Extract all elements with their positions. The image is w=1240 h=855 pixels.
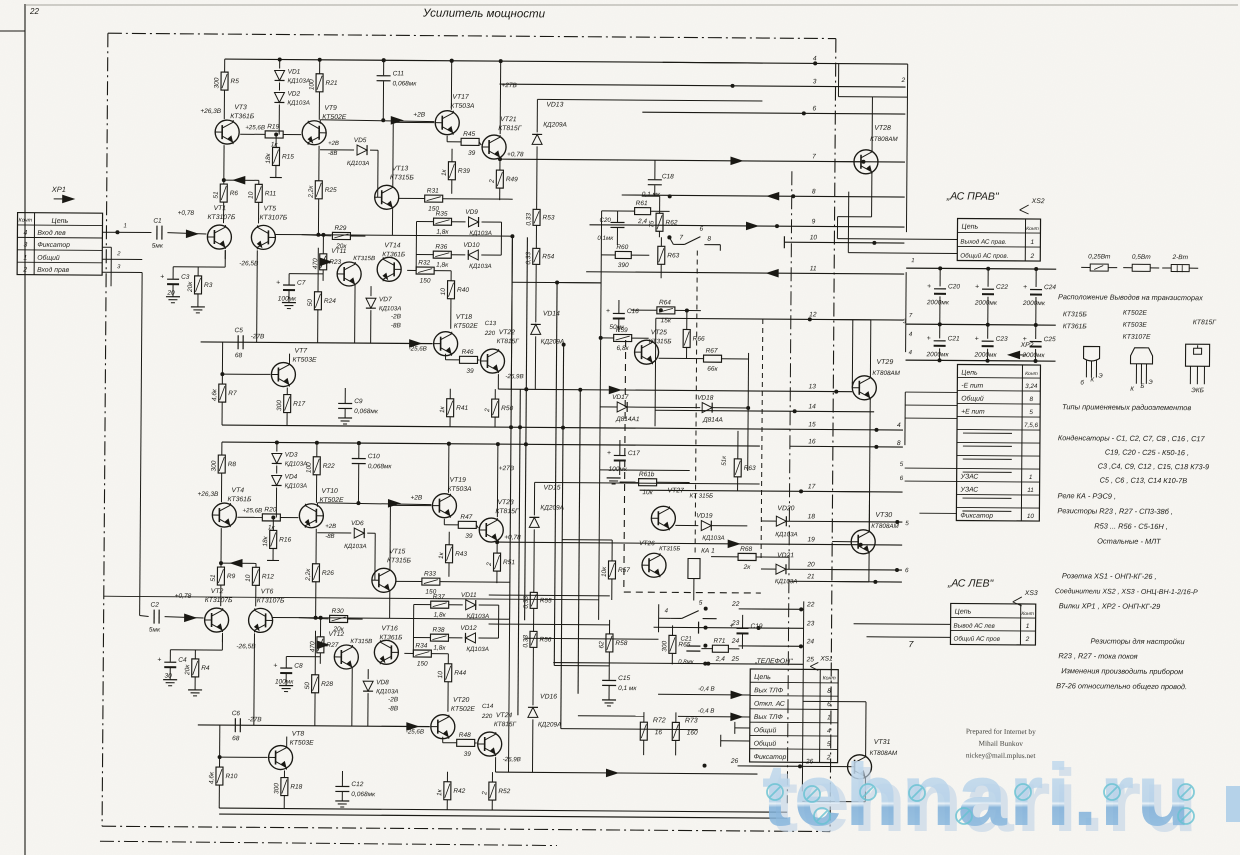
svg-text:R73: R73 bbox=[685, 717, 698, 724]
resistor R71 bbox=[712, 645, 728, 652]
svg-text:51: 51 bbox=[210, 574, 217, 582]
svg-text:КТ361Б: КТ361Б bbox=[1063, 323, 1088, 330]
capacitor C2 bbox=[153, 610, 155, 624]
resistor R72 bbox=[640, 722, 647, 740]
svg-text:VT21: VT21 bbox=[500, 116, 517, 123]
capacitor C16 bbox=[613, 312, 625, 314]
svg-text:КТ808АМ: КТ808АМ bbox=[870, 136, 898, 143]
resistor R59 bbox=[614, 334, 632, 341]
svg-text:КТ808АМ: КТ808АМ bbox=[871, 523, 899, 530]
wire input node bbox=[203, 616, 205, 618]
svg-text:0,1 мк: 0,1 мк bbox=[618, 685, 637, 692]
svg-text:R15: R15 bbox=[282, 154, 294, 161]
svg-text:5: 5 bbox=[1029, 409, 1033, 416]
svg-text:14: 14 bbox=[808, 403, 816, 410]
svg-text:Конт: Конт bbox=[1021, 611, 1034, 617]
svg-text:Изменения производить прибор: Изменения производить прибором bbox=[1061, 666, 1183, 676]
svg-text:R67: R67 bbox=[706, 348, 718, 355]
capacitor bank rails bbox=[906, 268, 1056, 269]
resistor R46 bbox=[459, 356, 477, 363]
svg-text:R58: R58 bbox=[615, 640, 627, 647]
svg-text:„АС ЛЕВ": „АС ЛЕВ" bbox=[947, 577, 995, 589]
svg-text:R30: R30 bbox=[332, 608, 344, 615]
svg-text:В7-26 относительно общего пр: В7-26 относительно общего провод. bbox=[1056, 681, 1187, 691]
svg-text:„АС ПРАВ": „АС ПРАВ" bbox=[946, 190, 1000, 202]
svg-text:Цепь: Цепь bbox=[961, 370, 978, 377]
diode VD20 bbox=[776, 516, 786, 526]
resistor R64 bbox=[657, 307, 675, 314]
wire bbox=[599, 470, 600, 620]
svg-text:25: 25 bbox=[731, 656, 740, 663]
resistor R43 bbox=[446, 545, 453, 563]
svg-text:Цепь: Цепь bbox=[955, 608, 972, 615]
capacitor С4 bbox=[164, 661, 176, 663]
svg-text:КД103А: КД103А bbox=[466, 646, 489, 653]
svg-text:-2В: -2В bbox=[391, 313, 402, 320]
trimmer R23 bbox=[320, 254, 327, 270]
resistor R48 bbox=[457, 739, 475, 746]
resistor R39 bbox=[448, 162, 455, 180]
wire bbox=[223, 145, 225, 184]
svg-text:2000мк: 2000мк bbox=[1022, 352, 1046, 359]
wire horizontal link 4 bbox=[554, 665, 609, 667]
svg-text:-0,4 В: -0,4 В bbox=[698, 686, 715, 693]
svg-text:4: 4 bbox=[813, 55, 817, 62]
wire vertical x905 bbox=[906, 64, 907, 232]
svg-text:С20: С20 bbox=[948, 283, 960, 290]
wire vertical bus C bbox=[525, 237, 528, 620]
schematic dash-dot border bbox=[108, 33, 836, 38]
diode VD17 bbox=[617, 402, 627, 412]
svg-text:Цепь: Цепь bbox=[961, 223, 978, 230]
diode VD9 bbox=[468, 217, 478, 227]
resistor R57 bbox=[608, 561, 615, 579]
resistor R63b bbox=[734, 459, 741, 477]
wire vertical bus A bbox=[510, 236, 513, 619]
svg-text:С19, С20 - С25 - К50-16 ,: С19, С20 - С25 - К50-16 , bbox=[1105, 448, 1189, 458]
svg-text:Резисторы R23 , R27 - СП3-38: Резисторы R23 , R27 - СП3-38б , bbox=[1057, 506, 1173, 516]
svg-text:21: 21 bbox=[806, 573, 815, 580]
svg-text:С3 ,С4, С9, С12 , С15, С18 К: С3 ,С4, С9, С12 , С15, С18 К73-9 bbox=[1098, 462, 1209, 472]
svg-text:XP2: XP2 bbox=[1020, 342, 1034, 349]
svg-text:23: 23 bbox=[731, 620, 740, 627]
svg-text:R31: R31 bbox=[427, 188, 439, 195]
wire +2V to driver bbox=[320, 120, 434, 122]
svg-text:24: 24 bbox=[731, 638, 740, 645]
resistor R10 bbox=[216, 767, 223, 785]
svg-text:С21: С21 bbox=[948, 335, 960, 342]
wire bottom rail bbox=[222, 425, 790, 429]
svg-text:39: 39 bbox=[465, 533, 473, 540]
svg-text:КТ315Б: КТ315Б bbox=[387, 557, 412, 564]
svg-text:300: 300 bbox=[661, 641, 668, 652]
svg-text:VT3: VT3 bbox=[234, 104, 247, 111]
svg-text:VD9: VD9 bbox=[465, 209, 478, 216]
svg-text:R36: R36 bbox=[435, 244, 447, 251]
svg-text:Усилитель мощности: Усилитель мощности bbox=[422, 8, 546, 21]
svg-text:КД103А: КД103А bbox=[288, 78, 311, 85]
svg-text:4: 4 bbox=[827, 728, 831, 735]
svg-text:+: + bbox=[160, 274, 164, 281]
svg-text:КТ315В: КТ315В bbox=[350, 638, 372, 645]
svg-text:Реле КА - РЭС9 ,: Реле КА - РЭС9 , bbox=[1057, 491, 1116, 500]
svg-text:0,068мк: 0,068мк bbox=[393, 80, 418, 87]
wire contact 19 bbox=[759, 544, 902, 545]
svg-text:22: 22 bbox=[29, 7, 39, 16]
svg-text:20к: 20к bbox=[187, 281, 194, 293]
svg-text:КД209А: КД209А bbox=[538, 721, 562, 728]
svg-text:VT4: VT4 bbox=[232, 487, 245, 494]
wire horizontal link 2 bbox=[489, 623, 610, 626]
svg-text:VD19: VD19 bbox=[696, 513, 713, 520]
connector XP1 table bbox=[17, 213, 102, 276]
svg-text:0,33: 0,33 bbox=[525, 213, 532, 226]
svg-text:Конт: Конт bbox=[1026, 226, 1039, 232]
svg-text:Фиксатор: Фиксатор bbox=[37, 242, 70, 249]
svg-text:5мк: 5мк bbox=[149, 627, 161, 634]
capacitor С12 bbox=[335, 785, 349, 787]
resistor R20 bbox=[237, 516, 262, 518]
resistor R65 bbox=[669, 635, 676, 653]
svg-text:R17: R17 bbox=[293, 401, 305, 408]
resistor R6 bbox=[220, 184, 227, 202]
diode VD19 bbox=[701, 521, 711, 531]
resistor R60 bbox=[615, 251, 631, 258]
svg-text:R68: R68 bbox=[740, 546, 752, 553]
svg-text:КД103А: КД103А bbox=[376, 688, 399, 695]
inner dash-dot vertical line bbox=[787, 171, 792, 803]
page frame bbox=[24, 4, 26, 855]
wire +2V to driver bbox=[317, 503, 431, 505]
svg-text:R55: R55 bbox=[540, 597, 552, 604]
wire vertical x805 bbox=[802, 601, 803, 791]
svg-text:11: 11 bbox=[1027, 487, 1034, 494]
svg-text:КТ3107Б: КТ3107Б bbox=[260, 214, 288, 221]
wire mid rail bbox=[198, 725, 430, 727]
svg-text:23: 23 bbox=[806, 620, 815, 627]
svg-text:1: 1 bbox=[1029, 474, 1033, 481]
svg-text:2000мк: 2000мк bbox=[926, 299, 950, 306]
svg-text:R7: R7 bbox=[228, 390, 237, 397]
wire emitters bbox=[272, 616, 299, 618]
svg-text:VT15: VT15 bbox=[389, 548, 406, 555]
svg-text:51: 51 bbox=[213, 191, 220, 199]
svg-text:КТ361Б: КТ361Б bbox=[230, 113, 255, 120]
svg-text:39: 39 bbox=[468, 150, 476, 157]
svg-text:300: 300 bbox=[213, 77, 220, 88]
resistor R3 bbox=[224, 250, 226, 259]
svg-text:R61: R61 bbox=[636, 200, 648, 207]
svg-text:R48: R48 bbox=[459, 732, 471, 739]
svg-text:КД209А: КД209А bbox=[540, 504, 564, 511]
svg-text:6: 6 bbox=[699, 226, 703, 233]
svg-text:R56: R56 bbox=[539, 636, 551, 643]
wire emitters bbox=[274, 233, 301, 235]
svg-text:+25,6В: +25,6В bbox=[245, 124, 265, 131]
svg-text:Вилки XP1 , XP2 - ОНП-КГ-29: Вилки XP1 , XP2 - ОНП-КГ-29 bbox=[1059, 601, 1161, 611]
svg-text:1: 1 bbox=[911, 258, 914, 264]
wire contact 12 bbox=[656, 318, 904, 320]
wire vertical bus D bbox=[554, 283, 557, 666]
svg-text:1: 1 bbox=[1026, 623, 1030, 630]
diode VD8 bbox=[367, 669, 369, 679]
svg-text:КТ808АМ: КТ808АМ bbox=[872, 370, 900, 377]
svg-text:100: 100 bbox=[308, 79, 315, 90]
svg-text:1к: 1к bbox=[438, 551, 445, 559]
svg-text:КТ3107Б: КТ3107Б bbox=[208, 214, 236, 221]
resistor R17 bbox=[284, 395, 291, 413]
svg-text:КД103А: КД103А bbox=[702, 535, 725, 542]
svg-text:2: 2 bbox=[901, 77, 906, 84]
svg-text:R3: R3 bbox=[204, 282, 213, 289]
svg-text:С14: С14 bbox=[482, 703, 494, 710]
wire horizontal link 8 bbox=[561, 729, 698, 730]
capacitor C21 bbox=[686, 645, 700, 647]
svg-text:VD1: VD1 bbox=[288, 69, 301, 76]
wire horizontal link 5 bbox=[512, 281, 601, 284]
dashed wire bbox=[761, 319, 763, 561]
watermark edge sliver bbox=[1226, 786, 1240, 822]
resistor R41 bbox=[447, 399, 454, 417]
svg-text:КТ815Г: КТ815Г bbox=[498, 125, 523, 132]
capacitor С20 bbox=[939, 268, 941, 286]
wire VT31 emitter down bbox=[802, 800, 865, 802]
wire contact 4 bbox=[663, 62, 908, 64]
svg-text:К: К bbox=[1090, 376, 1094, 383]
svg-text:VT18: VT18 bbox=[456, 314, 473, 321]
svg-text:С5: С5 bbox=[235, 327, 244, 334]
svg-text:18к: 18к bbox=[262, 535, 269, 546]
svg-text:КТ315В: КТ315В bbox=[353, 255, 375, 262]
svg-text:VT30: VT30 bbox=[875, 512, 892, 519]
resistor R36 bbox=[433, 251, 451, 258]
svg-text:25: 25 bbox=[806, 656, 815, 663]
svg-text:3: 3 bbox=[813, 78, 817, 85]
svg-text:0,1мк: 0,1мк bbox=[597, 235, 614, 242]
svg-text:4: 4 bbox=[897, 422, 901, 429]
svg-text:2,4: 2,4 bbox=[637, 218, 647, 225]
svg-text:КА 1: КА 1 bbox=[701, 548, 715, 555]
svg-text:КД103А: КД103А bbox=[344, 543, 367, 550]
wire contact 14 bbox=[655, 410, 874, 412]
svg-text:+25,6В: +25,6В bbox=[242, 507, 262, 514]
svg-text:0,33: 0,33 bbox=[525, 252, 532, 265]
resistor R25 bbox=[315, 181, 322, 199]
wire to XS2 bbox=[837, 238, 957, 241]
wire bottom long bbox=[219, 808, 787, 812]
svg-text:С25: С25 bbox=[1044, 336, 1056, 343]
resistor R40 bbox=[447, 281, 454, 299]
svg-text:7: 7 bbox=[812, 153, 816, 160]
svg-text:VD14: VD14 bbox=[543, 310, 560, 317]
svg-text:22: 22 bbox=[806, 601, 815, 608]
svg-text:R4: R4 bbox=[201, 665, 210, 672]
svg-text:VD21: VD21 bbox=[777, 552, 794, 559]
svg-text:Prepared for Internet by: Prepared for Internet by bbox=[966, 727, 1036, 737]
svg-text:R60: R60 bbox=[616, 244, 628, 251]
svg-text:+0,78: +0,78 bbox=[178, 210, 195, 217]
capacitor С25 bbox=[1035, 325, 1037, 339]
svg-text:17: 17 bbox=[808, 483, 816, 490]
svg-text:2000мк: 2000мк bbox=[974, 352, 998, 359]
svg-text:2: 2 bbox=[1025, 636, 1030, 643]
svg-text:160: 160 bbox=[687, 729, 698, 736]
resistor R29 bbox=[301, 235, 331, 236]
svg-text:R53: R53 bbox=[543, 214, 555, 221]
svg-text:R64: R64 bbox=[659, 299, 671, 306]
capacitor С3 bbox=[167, 278, 179, 280]
svg-text:R51: R51 bbox=[503, 559, 515, 566]
svg-text:С15: С15 bbox=[618, 675, 630, 682]
svg-text:150: 150 bbox=[417, 661, 428, 668]
wire vertical bus E bbox=[561, 345, 564, 729]
svg-text:R63: R63 bbox=[667, 252, 679, 259]
svg-text:Фиксатор: Фиксатор bbox=[960, 512, 993, 519]
connector XS2 table bbox=[957, 218, 1040, 261]
resistor R9 bbox=[217, 567, 224, 585]
svg-text:-27В: -27В bbox=[251, 333, 265, 340]
svg-text:1: 1 bbox=[123, 223, 126, 229]
svg-text:КТ503Е: КТ503Е bbox=[290, 740, 315, 747]
svg-text:R21: R21 bbox=[326, 80, 338, 87]
svg-text:26: 26 bbox=[730, 758, 739, 765]
svg-text:Конденсаторы - С1, С2, С7, С8: Конденсаторы - С1, С2, С7, С8 , С16 , С1… bbox=[1058, 433, 1206, 443]
svg-text:+27В: +27В bbox=[501, 82, 517, 89]
svg-text:R35: R35 bbox=[436, 211, 448, 218]
wire contact 25 bbox=[553, 663, 803, 665]
svg-text:R22: R22 bbox=[323, 463, 335, 470]
svg-text:VD18: VD18 bbox=[697, 395, 714, 402]
svg-text:С10: С10 bbox=[368, 453, 380, 460]
svg-text:КД209А: КД209А bbox=[541, 338, 565, 345]
svg-text:1к: 1к bbox=[439, 405, 446, 413]
svg-text:+: + bbox=[927, 283, 931, 290]
svg-text:R59: R59 bbox=[616, 327, 628, 334]
svg-text:+2В: +2В bbox=[325, 524, 336, 530]
junction dots bbox=[510, 234, 514, 238]
wire bbox=[599, 340, 602, 470]
svg-text:С4: С4 bbox=[178, 657, 187, 664]
svg-text:4: 4 bbox=[909, 331, 913, 338]
svg-text:КТ502Е: КТ502Е bbox=[451, 706, 476, 713]
svg-text:VT22: VT22 bbox=[499, 329, 516, 336]
svg-text:5: 5 bbox=[905, 520, 909, 527]
svg-text:Розетка XS1 - ОНП-КГ-26 ,: Розетка XS1 - ОНП-КГ-26 , bbox=[1062, 571, 1157, 581]
svg-text:+: + bbox=[276, 279, 280, 286]
svg-text:VT11: VT11 bbox=[331, 248, 346, 255]
resistor R18 bbox=[281, 778, 288, 796]
resistor R58 bbox=[606, 634, 613, 652]
svg-text:R37: R37 bbox=[433, 594, 445, 601]
svg-text:VT13: VT13 bbox=[392, 165, 409, 172]
wire contact 22 bbox=[739, 608, 804, 610]
svg-text:VT19: VT19 bbox=[450, 477, 467, 484]
resistor R61 bbox=[639, 479, 657, 486]
svg-text:Вых ТЛФ: Вых ТЛФ bbox=[754, 687, 784, 694]
resistor R49 bbox=[496, 170, 503, 188]
wire contact 8 bbox=[622, 195, 905, 197]
svg-text:16: 16 bbox=[655, 729, 663, 736]
svg-text:R20: R20 bbox=[264, 506, 276, 513]
capacitor С24 bbox=[1035, 269, 1037, 287]
svg-text:КТ315Б: КТ315Б bbox=[390, 174, 415, 181]
svg-text:51к: 51к bbox=[721, 455, 728, 466]
svg-text:15: 15 bbox=[808, 421, 816, 428]
svg-text:R6: R6 bbox=[230, 190, 239, 197]
svg-text:VT29: VT29 bbox=[876, 359, 893, 366]
svg-text:1к: 1к bbox=[436, 788, 443, 796]
svg-text:С8: С8 bbox=[294, 663, 303, 670]
svg-text:10: 10 bbox=[248, 191, 255, 199]
svg-text:30: 30 bbox=[165, 673, 173, 680]
svg-text:2,4: 2,4 bbox=[715, 656, 725, 663]
svg-text:+27В: +27В bbox=[499, 465, 515, 472]
svg-text:КТ502Е: КТ502Е bbox=[1123, 310, 1148, 317]
resistor R50 bbox=[492, 399, 499, 417]
wire mid rail bbox=[201, 342, 433, 344]
transistor package KT815 bbox=[1185, 344, 1209, 366]
capacitor С23 bbox=[987, 325, 989, 339]
svg-text:68: 68 bbox=[232, 735, 240, 742]
svg-text:С2: С2 bbox=[151, 602, 160, 609]
svg-text:R41: R41 bbox=[456, 405, 468, 412]
resistor R73 bbox=[672, 722, 679, 740]
resistor R15 bbox=[275, 134, 277, 147]
resistor R55 bbox=[530, 592, 537, 608]
svg-text:+: + bbox=[157, 657, 161, 664]
svg-text:16: 16 bbox=[808, 438, 816, 445]
svg-text:-26,9В: -26,9В bbox=[503, 756, 521, 763]
svg-text:8: 8 bbox=[812, 188, 816, 195]
svg-text:XS1: XS1 bbox=[819, 655, 833, 662]
svg-text:22: 22 bbox=[731, 601, 740, 608]
svg-text:С24: С24 bbox=[1044, 284, 1056, 291]
dashed protection zone left bbox=[624, 340, 626, 592]
capacitor С11 bbox=[377, 75, 391, 77]
svg-text:390: 390 bbox=[618, 262, 629, 269]
wire input node bbox=[205, 233, 207, 235]
svg-text:R16: R16 bbox=[279, 537, 291, 544]
svg-text:Э: Э bbox=[1098, 373, 1103, 380]
svg-text:VD4: VD4 bbox=[285, 474, 298, 481]
svg-text:Общий АС пров: Общий АС пров bbox=[953, 634, 1000, 642]
wire to lower channel input bbox=[102, 271, 142, 273]
svg-text:R25: R25 bbox=[325, 187, 337, 194]
svg-text:7: 7 bbox=[679, 234, 683, 241]
capacitor C1 bbox=[156, 226, 158, 240]
svg-text:2,2к: 2,2к bbox=[308, 185, 315, 199]
svg-text:9: 9 bbox=[812, 218, 816, 225]
capacitor С8 bbox=[280, 667, 292, 669]
wire supply rail bottom bbox=[222, 442, 760, 446]
svg-text:39: 39 bbox=[466, 368, 474, 375]
svg-text:R39: R39 bbox=[458, 168, 470, 175]
svg-text:+0,78: +0,78 bbox=[507, 151, 524, 158]
svg-text:VT16: VT16 bbox=[382, 625, 399, 632]
diode VD3 bbox=[276, 442, 278, 451]
svg-text:XS2: XS2 bbox=[1031, 198, 1045, 205]
resistor R11 bbox=[258, 180, 260, 184]
svg-text:КД103А: КД103А bbox=[379, 305, 402, 312]
svg-text:VD11: VD11 bbox=[461, 592, 477, 599]
wire contact 17 bbox=[640, 490, 903, 492]
svg-text:20: 20 bbox=[166, 290, 175, 297]
svg-text:VT5: VT5 bbox=[264, 205, 277, 212]
svg-text:R11: R11 bbox=[265, 190, 277, 197]
svg-text:R23 , R27 - тока покоя: R23 , R27 - тока покоя bbox=[1058, 651, 1137, 661]
svg-text:-8В: -8В bbox=[325, 534, 334, 540]
capacitor C20 bbox=[611, 221, 625, 223]
